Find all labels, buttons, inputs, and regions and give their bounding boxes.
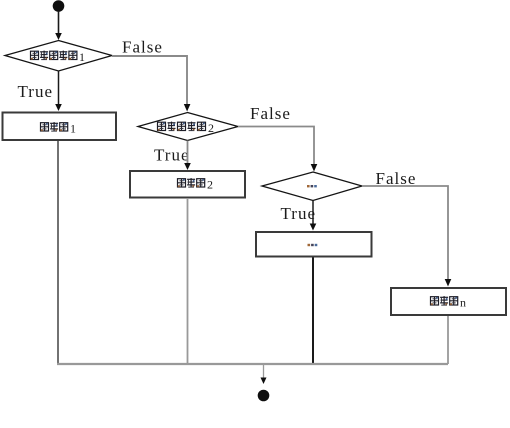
end node (258, 390, 270, 402)
svg-text:2: 2 (207, 178, 213, 192)
wire R1 down to bus (57, 141, 59, 364)
start node (53, 0, 65, 12)
bus bottom (57, 363, 448, 365)
label R3 dots (308, 244, 318, 246)
svg-text:n: n (460, 296, 466, 310)
svg-text:False: False (122, 38, 163, 57)
process R3 (256, 232, 372, 257)
wire R2 down to bus (187, 198, 189, 364)
process R4 (391, 288, 506, 315)
wire R3 down to bus (312, 258, 314, 365)
label D2 text (158, 121, 215, 135)
svg-text:2: 2 (208, 121, 214, 135)
wire bus to end (263, 364, 265, 379)
svg-text:1: 1 (70, 122, 76, 136)
process R2 (130, 171, 245, 198)
decision D3 (262, 172, 362, 201)
decision D2 (138, 113, 238, 141)
wire start to decision 1 (58, 11, 60, 35)
svg-text:True: True (18, 82, 54, 101)
wire R4 down to bus (447, 316, 449, 364)
svg-text:1: 1 (79, 50, 85, 64)
wire D3 false to R4 (362, 186, 448, 280)
wire D2 false to D3 (238, 127, 314, 166)
label D1 text (31, 50, 86, 64)
label R4 text (431, 296, 467, 310)
label D3 dots (307, 185, 317, 187)
wire D1 true to R1 (58, 71, 60, 106)
wire D3 true to R3 (312, 201, 314, 225)
wire D1 false to D2 (112, 56, 187, 105)
label R1 text (41, 122, 77, 136)
svg-text:True: True (154, 146, 190, 165)
svg-text:False: False (250, 104, 291, 123)
decision D1 (5, 41, 112, 72)
wire D2 true to R2 (187, 141, 189, 165)
label R2 text (178, 178, 214, 192)
process R1 (3, 113, 117, 141)
svg-text:True: True (281, 204, 317, 223)
